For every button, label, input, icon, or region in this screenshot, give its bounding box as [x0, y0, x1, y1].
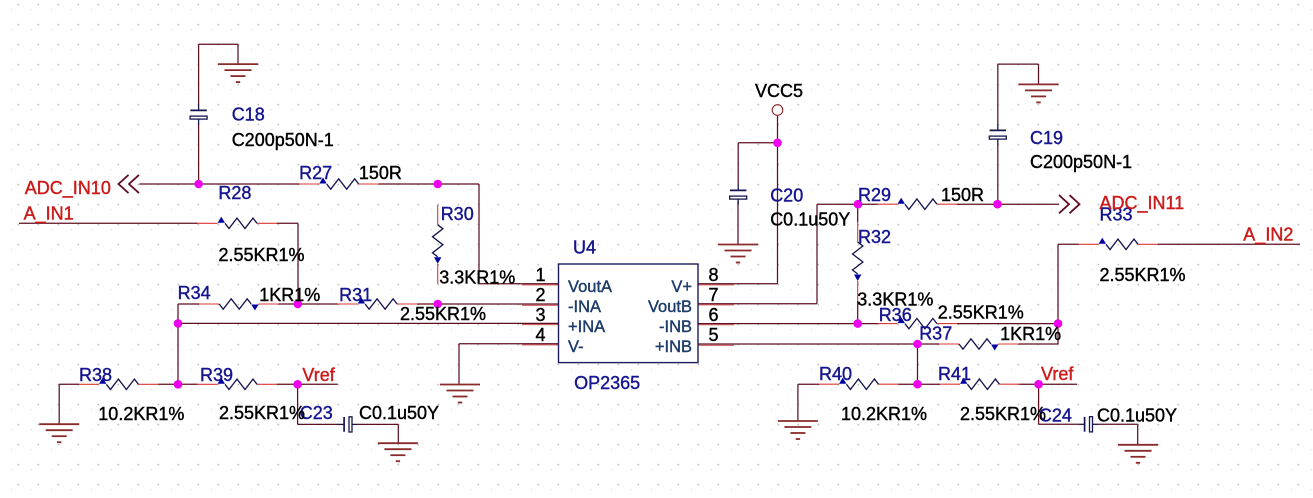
wire A_IN2 row	[1158, 243, 1300, 245]
wire vertical x1058	[1057, 244, 1059, 344]
svg-text:150R: 150R	[359, 163, 402, 183]
port chevron ADC_IN11	[1059, 195, 1080, 213]
svg-text:C0.1u50Y: C0.1u50Y	[359, 403, 439, 423]
svg-text:R37: R37	[919, 324, 952, 344]
svg-text:U4: U4	[573, 238, 596, 258]
wire to chevron out	[998, 203, 1060, 205]
wire pin7 jog horizontal	[817, 203, 858, 205]
port chevron ADC_IN10	[119, 175, 140, 193]
svg-text:2.55KR1%: 2.55KR1%	[219, 245, 305, 265]
svg-text:R38: R38	[79, 365, 112, 385]
pin stub R27	[299, 183, 319, 185]
wire C18 top horizontal to ground	[199, 43, 238, 45]
wire R38 ground vertical	[58, 384, 60, 424]
junction R28/R34 row	[294, 300, 303, 309]
pin stub R40	[819, 383, 839, 385]
svg-text:2: 2	[535, 285, 545, 305]
wire C19 ground stem	[1038, 64, 1040, 84]
resistor R32	[853, 242, 863, 281]
svg-text:V-: V-	[568, 338, 584, 356]
svg-text:R30: R30	[441, 204, 474, 224]
wire R32 bottom	[857, 301, 859, 324]
junction C19/ADC_IN11	[993, 200, 1002, 209]
svg-text:Vref: Vref	[302, 365, 335, 385]
wire pin1 stub	[479, 283, 559, 285]
svg-text:10.2KR1%: 10.2KR1%	[841, 404, 927, 424]
svg-text:R41: R41	[938, 364, 971, 384]
capacitor C19	[989, 125, 1006, 145]
resistor R34	[219, 299, 258, 311]
resistor R29	[898, 198, 937, 210]
resistor R28	[218, 217, 257, 229]
pin 8 glow	[698, 284, 734, 286]
svg-text:VoutA: VoutA	[568, 278, 612, 296]
svg-text:C0.1u50Y: C0.1u50Y	[770, 210, 850, 230]
ground C24	[1118, 445, 1158, 463]
pin 6 glow	[698, 324, 734, 326]
wire R37 right	[1018, 343, 1058, 345]
capacitor C24	[1079, 417, 1098, 432]
ground C20	[718, 245, 758, 263]
junction R30/pin2 row	[433, 300, 442, 309]
wire row C to pin2	[417, 303, 558, 305]
svg-text:+INA: +INA	[568, 318, 605, 336]
resistor R41	[960, 378, 999, 390]
svg-text:8: 8	[709, 265, 719, 285]
svg-text:ADC_IN11: ADC_IN11	[1100, 193, 1185, 214]
wire vertical x178	[177, 304, 179, 384]
resistor R33	[1099, 238, 1138, 250]
wire A_IN1 row	[19, 222, 198, 224]
svg-text:2.55KR1%: 2.55KR1%	[938, 303, 1024, 323]
pin stub R34	[199, 303, 219, 305]
svg-text:2.55KR1%: 2.55KR1%	[219, 403, 305, 423]
svg-text:C19: C19	[1030, 128, 1063, 148]
wire C23 left horizontal	[298, 423, 339, 425]
wire R29 right to C19 junction	[957, 203, 998, 205]
wire row E left	[59, 383, 79, 385]
pin stub R29	[878, 203, 898, 205]
pin stub R31	[338, 303, 358, 305]
wire net ADC_IN10 row	[139, 183, 299, 185]
svg-text:3: 3	[535, 305, 545, 325]
svg-text:C200p50N-1: C200p50N-1	[1030, 152, 1132, 172]
svg-text:C18: C18	[232, 105, 265, 125]
wire R28 right	[277, 222, 298, 224]
wire C19 top horizontal	[998, 63, 1039, 65]
capacitor C18	[190, 105, 207, 125]
wire C19 top vertical	[997, 64, 999, 125]
wire C24 ground vertical	[1137, 424, 1139, 445]
wire C20 top vertical	[737, 143, 739, 185]
pin stub R39	[198, 383, 218, 385]
pin 4 glow	[522, 344, 559, 346]
svg-text:R40: R40	[819, 364, 852, 384]
svg-text:2.55KR1%: 2.55KR1%	[1100, 265, 1186, 285]
pin stub R36	[878, 323, 898, 325]
junction Vref right	[1034, 380, 1043, 389]
junction R27/R30	[433, 180, 442, 189]
capacitor C20	[730, 185, 747, 205]
wire C20 top horizontal	[738, 142, 777, 144]
wire ground stem C18	[237, 44, 239, 64]
svg-text:150R: 150R	[941, 185, 984, 205]
resistor R31	[358, 298, 397, 310]
ground C19	[1019, 84, 1059, 102]
wire R32 top	[857, 204, 859, 222]
svg-text:1: 1	[535, 265, 545, 285]
svg-text:R32: R32	[858, 227, 891, 247]
svg-text:1KR1%: 1KR1%	[259, 285, 320, 305]
op-amp U4 box	[559, 264, 699, 363]
junction C18/ADC_IN10	[194, 180, 203, 189]
svg-text:R39: R39	[200, 365, 233, 385]
wire row E2 left	[798, 383, 819, 385]
resistor R40	[839, 378, 878, 390]
wire C18 bottom vertical	[198, 124, 200, 184]
svg-text:V+: V+	[671, 278, 692, 296]
svg-text:C200p50N-1: C200p50N-1	[232, 130, 334, 150]
ground C23	[378, 443, 418, 461]
junction R40/R41	[913, 380, 922, 389]
wire vertical x917.5	[917, 344, 919, 384]
wire C20 bottom vertical	[737, 201, 739, 245]
svg-text:4: 4	[535, 325, 545, 345]
wire pin5 row	[698, 343, 939, 345]
wire row D to pin3	[178, 322, 559, 324]
svg-text:R29: R29	[858, 185, 891, 205]
wire row C mid	[279, 303, 338, 305]
wire C18 top vertical	[198, 44, 200, 105]
wire C24 right horizontal	[1098, 423, 1138, 425]
svg-text:1KR1%: 1KR1%	[1000, 324, 1061, 344]
wire pin1 jog vertical	[478, 184, 480, 284]
svg-text:Vref: Vref	[1041, 364, 1074, 384]
svg-text:R31: R31	[339, 285, 372, 305]
pin 3 glow	[522, 324, 559, 326]
wire pin7 stub	[698, 303, 817, 305]
svg-text:R34: R34	[178, 283, 211, 303]
pin stub R30	[437, 205, 439, 225]
svg-text:3.3KR1%: 3.3KR1%	[439, 268, 515, 288]
wire R29 left	[858, 203, 878, 205]
pin stub R28	[198, 222, 218, 224]
wire row E2 vref stub	[1019, 383, 1077, 385]
wire R36 right	[957, 323, 1058, 325]
pin 5 glow	[698, 344, 734, 346]
svg-text:6: 6	[709, 305, 719, 325]
power port VCC5	[772, 105, 783, 116]
junction R32/pin6 row	[853, 319, 862, 328]
svg-text:VCC5: VCC5	[755, 81, 803, 101]
wire R33 left	[1058, 243, 1079, 245]
pin stub R37	[939, 343, 959, 345]
resistor R39	[218, 378, 257, 390]
svg-text:10.2KR1%: 10.2KR1%	[98, 404, 184, 424]
svg-text:R27: R27	[299, 163, 332, 183]
svg-text:-INA: -INA	[568, 298, 601, 316]
junction R29/R32	[854, 200, 863, 209]
wire R40 ground vertical	[797, 384, 799, 421]
svg-text:-INB: -INB	[659, 318, 692, 336]
svg-text:C0.1u50Y: C0.1u50Y	[1097, 406, 1177, 426]
capacitor C23	[339, 417, 358, 432]
resistor R37	[959, 339, 998, 351]
wire pin4 ground vertical	[458, 344, 460, 385]
ground C18	[218, 64, 258, 82]
svg-text:5: 5	[709, 325, 719, 345]
svg-text:VoutB: VoutB	[648, 298, 692, 316]
resistor R30	[433, 225, 443, 264]
wire C23 branch vertical	[297, 384, 299, 424]
wire row E2 mid	[898, 383, 940, 385]
ground R40	[778, 421, 818, 439]
wire C24 branch vertical	[1038, 384, 1040, 424]
wire row C left	[178, 303, 199, 305]
wire C19 bottom vertical	[997, 144, 999, 204]
pin stub R33	[1079, 243, 1099, 245]
pin stub R38	[79, 383, 99, 385]
resistor R36	[898, 317, 937, 329]
pin 7 glow	[698, 304, 734, 306]
wire VCC5 vertical	[777, 116, 779, 284]
wire pin4 stub	[459, 343, 559, 345]
svg-text:2.55KR1%: 2.55KR1%	[400, 304, 486, 324]
wire C23 ground vertical	[397, 424, 399, 443]
svg-text:+INB: +INB	[655, 338, 692, 356]
junction R38/R39	[174, 380, 183, 389]
pin stub R32	[857, 222, 859, 242]
junction pin3 row	[174, 319, 183, 328]
svg-text:A_IN2: A_IN2	[1243, 225, 1293, 246]
wire pin8 stub	[698, 283, 778, 285]
wire C23 right horizontal	[357, 423, 398, 425]
wire pin7 jog vertical	[816, 204, 818, 304]
svg-text:ADC_IN10: ADC_IN10	[25, 178, 111, 199]
wire R27 to R30 top	[379, 183, 479, 185]
svg-text:7: 7	[709, 285, 719, 305]
junction pin5 row	[913, 340, 922, 349]
svg-text:OP2365: OP2365	[574, 373, 640, 393]
pin 1 glow	[522, 284, 559, 286]
svg-text:2.55KR1%: 2.55KR1%	[960, 404, 1046, 424]
resistor R38	[99, 378, 138, 390]
svg-text:A_IN1: A_IN1	[24, 204, 74, 225]
svg-text:3.3KR1%: 3.3KR1%	[857, 290, 933, 310]
pin 2 glow	[522, 304, 559, 306]
svg-text:C20: C20	[770, 185, 803, 205]
wire C24 left horizontal	[1039, 423, 1080, 425]
junction VCC5/C20	[773, 139, 782, 148]
ground pin4	[440, 385, 480, 403]
wire pin6 row	[698, 323, 878, 325]
junction R36/R33	[1054, 319, 1063, 328]
svg-text:R28: R28	[218, 183, 251, 203]
junction Vref left	[293, 380, 302, 389]
wire row E vref stub	[277, 383, 338, 385]
wire row E mid	[158, 383, 197, 385]
wire R28 down vertical	[297, 223, 299, 304]
resistor R27	[319, 178, 358, 190]
pin stub R41	[940, 383, 960, 385]
ground R38	[39, 424, 79, 442]
